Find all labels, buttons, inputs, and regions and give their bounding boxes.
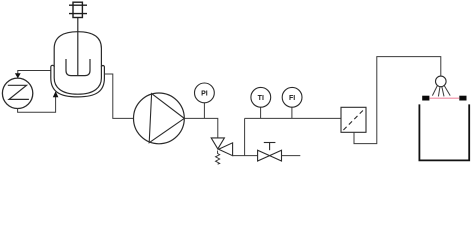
pipe: reactor jacket to HX inlet — [18, 71, 51, 75]
filter F1 — [341, 107, 366, 132]
motor M1 — [69, 2, 87, 17]
tank T1 — [419, 104, 469, 160]
pipe: jacket right to pump suction — [104, 74, 133, 118]
pipe: filter outlet up and over to spray — [354, 57, 441, 144]
gate valve V2 — [258, 143, 282, 162]
packing support right — [459, 96, 466, 101]
main line to filter — [245, 117, 341, 119]
spray nozzle — [436, 76, 447, 87]
agitator shaft — [77, 18, 79, 76]
pump triangle — [149, 94, 184, 143]
relief valve spring — [216, 151, 220, 165]
instrument TI — [251, 87, 271, 107]
riser junction to main line — [244, 118, 246, 155]
svg-text:FI: FI — [289, 95, 295, 102]
instrument PI — [195, 83, 215, 103]
drain pipe end — [282, 155, 301, 157]
filter diagonal (dashed) — [343, 110, 363, 130]
agitator impeller — [66, 59, 90, 76]
spray lines — [432, 86, 450, 97]
TI instrument stub — [260, 107, 262, 118]
PI instrument stub — [203, 103, 205, 119]
packing support left — [422, 96, 429, 101]
pipe: relief valve outlet / drain header — [233, 155, 258, 157]
pipe: pump discharge to relief valve — [184, 118, 218, 137]
jacket — [51, 65, 105, 97]
pipe: HX outlet to reactor jacket bottom — [18, 97, 56, 113]
svg-text:TI: TI — [258, 95, 264, 102]
FI instrument stub — [291, 107, 293, 118]
arrow into jacket — [53, 91, 59, 97]
svg-text:PI: PI — [201, 91, 208, 98]
arrow into HX — [15, 73, 21, 78]
distributor red line — [430, 97, 460, 99]
pump P1 — [134, 93, 185, 144]
relief valve PSV — [211, 138, 232, 156]
instrument FI — [282, 87, 302, 107]
reactor vessel R1 — [54, 32, 101, 94]
heat exchanger E1 — [2, 78, 32, 108]
